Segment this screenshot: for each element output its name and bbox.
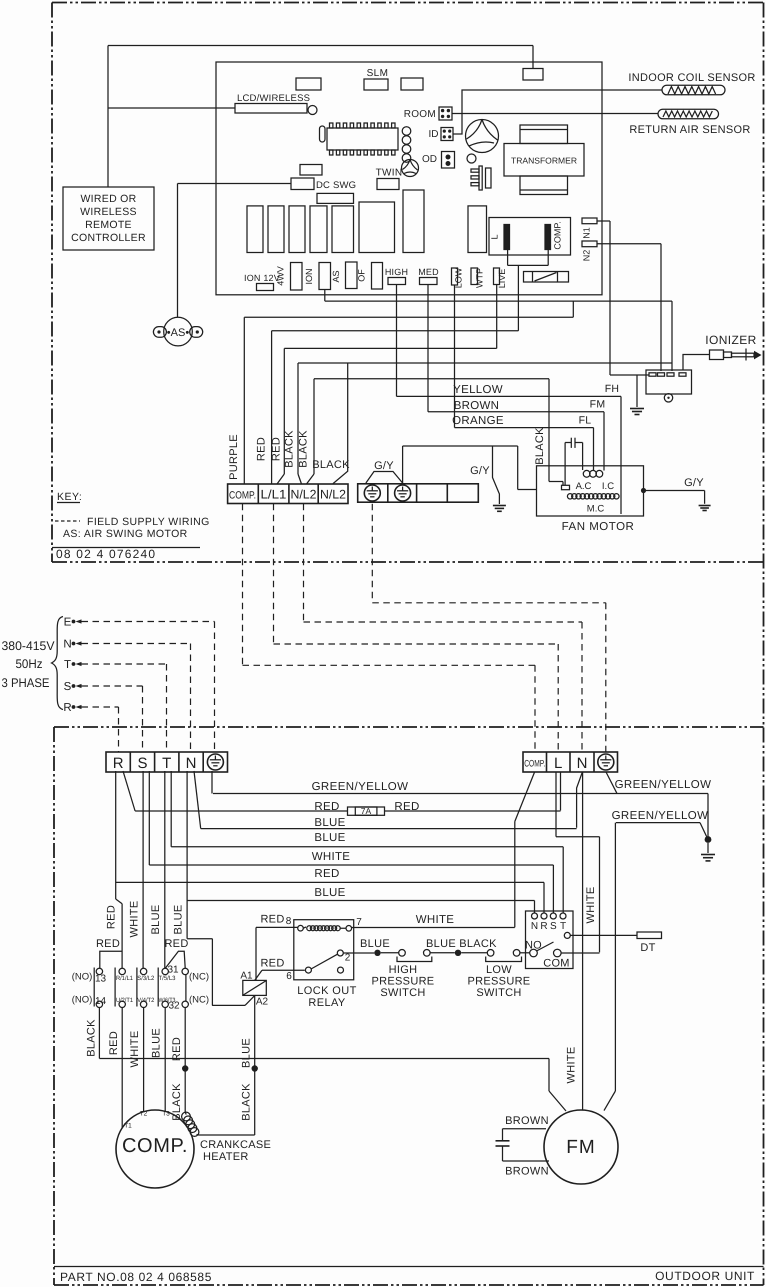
svg-text:OD: OD <box>422 154 437 165</box>
svg-text:LIVE: LIVE <box>497 269 507 289</box>
svg-text:TWIN: TWIN <box>376 168 403 179</box>
svg-text:T2: T2 <box>140 1111 148 1118</box>
svg-text:W/6/T3: W/6/T3 <box>159 997 176 1004</box>
svg-text:7: 7 <box>356 917 362 928</box>
svg-text:08 02 4 076240: 08 02 4 076240 <box>56 547 156 561</box>
svg-text:BLUE: BLUE <box>360 938 390 950</box>
svg-text:RED: RED <box>164 938 188 950</box>
svg-text:RED: RED <box>96 938 120 950</box>
svg-text:380-415V: 380-415V <box>2 639 56 653</box>
svg-text:RED: RED <box>314 868 339 880</box>
svg-text:13: 13 <box>95 974 107 985</box>
svg-text:WHITE: WHITE <box>129 1031 141 1068</box>
svg-text:AS: AS <box>331 270 341 282</box>
svg-text:T: T <box>560 921 566 932</box>
svg-text:ROOM: ROOM <box>404 109 436 120</box>
svg-text:WIRELESS: WIRELESS <box>80 206 137 218</box>
svg-text:N2: N2 <box>582 250 592 262</box>
svg-text:RED: RED <box>106 905 118 929</box>
svg-text:KEY:: KEY: <box>57 491 82 503</box>
svg-text:BLACK: BLACK <box>284 430 296 468</box>
svg-text:•AS•: •AS• <box>167 327 190 339</box>
svg-text:PURPLE: PURPLE <box>228 434 240 480</box>
svg-text:S: S <box>64 681 72 693</box>
svg-text:OF: OF <box>357 269 367 282</box>
svg-text:2: 2 <box>345 953 351 964</box>
svg-text:6: 6 <box>286 971 292 982</box>
svg-text:U/2/T1: U/2/T1 <box>116 997 134 1004</box>
svg-text:A2: A2 <box>256 997 269 1008</box>
svg-text:RELAY: RELAY <box>308 997 346 1009</box>
svg-text:L: L <box>490 234 500 239</box>
svg-text:N: N <box>63 639 71 651</box>
svg-text:ID: ID <box>429 129 439 140</box>
svg-text:V/4/T2: V/4/T2 <box>137 997 155 1004</box>
svg-text:SWITCH: SWITCH <box>380 987 425 999</box>
svg-text:S: S <box>137 755 147 772</box>
svg-text:HEATER: HEATER <box>203 1151 249 1163</box>
svg-text:RED: RED <box>314 801 339 813</box>
svg-text:M.C: M.C <box>587 504 605 515</box>
svg-text:8: 8 <box>286 916 292 927</box>
svg-text:R/1/L1: R/1/L1 <box>116 975 134 982</box>
svg-text:3 PHASE: 3 PHASE <box>2 676 50 690</box>
svg-text:GREEN/YELLOW: GREEN/YELLOW <box>312 781 409 793</box>
svg-text:N: N <box>186 755 197 772</box>
svg-text:FIELD SUPPLY WIRING: FIELD SUPPLY WIRING <box>87 516 210 528</box>
svg-text:BLUE: BLUE <box>314 832 345 844</box>
svg-text:WHITE: WHITE <box>312 851 351 863</box>
svg-text:RETURN AIR SENSOR: RETURN AIR SENSOR <box>629 124 750 136</box>
svg-text:PRESSURE: PRESSURE <box>372 976 435 988</box>
svg-text:(NC): (NC) <box>189 972 209 983</box>
svg-text:WIRED OR: WIRED OR <box>80 193 136 205</box>
svg-text:14: 14 <box>95 996 107 1007</box>
svg-text:L: L <box>554 755 562 772</box>
svg-text:LOCK OUT: LOCK OUT <box>297 985 356 997</box>
svg-text:OUTDOOR UNIT: OUTDOOR UNIT <box>655 1269 755 1283</box>
svg-text:L/L1: L/L1 <box>261 488 287 502</box>
svg-text:SLM: SLM <box>367 68 389 79</box>
svg-text:G/Y: G/Y <box>374 460 394 472</box>
svg-text:GREEN/YELLOW: GREEN/YELLOW <box>615 779 712 791</box>
svg-text:FM: FM <box>566 1137 595 1158</box>
svg-text:S: S <box>550 921 557 932</box>
svg-text:BLACK: BLACK <box>312 459 350 471</box>
svg-text:FH: FH <box>605 383 620 395</box>
svg-text:A.C: A.C <box>576 481 592 492</box>
svg-text:PRESSURE: PRESSURE <box>468 976 531 988</box>
svg-text:(NO): (NO) <box>72 995 93 1006</box>
svg-text:WHITE: WHITE <box>585 887 597 924</box>
svg-text:LOW: LOW <box>486 964 512 976</box>
svg-text:HIGH: HIGH <box>389 964 418 976</box>
svg-text:BLUE: BLUE <box>314 817 345 829</box>
svg-text:FM: FM <box>590 399 606 411</box>
svg-text:ION: ION <box>304 268 314 284</box>
svg-text:T3: T3 <box>162 1111 170 1118</box>
svg-text:BLACK: BLACK <box>298 430 310 468</box>
svg-text:4WV: 4WV <box>276 266 286 286</box>
svg-text:BROWN: BROWN <box>505 1115 549 1127</box>
svg-text:50Hz: 50Hz <box>16 657 43 671</box>
svg-text:COM: COM <box>543 958 570 970</box>
svg-text:FAN MOTOR: FAN MOTOR <box>562 521 635 533</box>
svg-text:T/5/L3: T/5/L3 <box>159 975 177 982</box>
svg-text:RED: RED <box>260 958 284 970</box>
svg-text:BROWN: BROWN <box>505 1166 549 1178</box>
svg-text:BROWN: BROWN <box>454 400 500 412</box>
svg-text:BLUE: BLUE <box>172 905 184 935</box>
svg-text:INDOOR COIL SENSOR: INDOOR COIL SENSOR <box>628 72 755 84</box>
svg-text:(NO): (NO) <box>72 972 93 983</box>
svg-text:GREEN/YELLOW: GREEN/YELLOW <box>612 810 709 822</box>
svg-text:RED: RED <box>394 801 419 813</box>
svg-text:COMP.: COMP. <box>229 490 256 502</box>
svg-text:FL: FL <box>579 415 592 427</box>
svg-text:AS: AIR SWING MOTOR: AS: AIR SWING MOTOR <box>63 528 188 540</box>
svg-text:REMOTE: REMOTE <box>85 219 132 231</box>
svg-text:COMP.: COMP. <box>524 759 545 770</box>
svg-text:R: R <box>113 755 124 772</box>
svg-text:COMP.: COMP. <box>122 1135 188 1157</box>
svg-text:(NC): (NC) <box>189 995 209 1006</box>
svg-text:N: N <box>531 921 538 932</box>
svg-text:DC SWG: DC SWG <box>316 180 356 191</box>
svg-text:BLUE: BLUE <box>314 887 345 899</box>
svg-text:T: T <box>64 659 71 671</box>
svg-text:N/L2: N/L2 <box>291 488 317 502</box>
svg-text:N: N <box>577 755 588 772</box>
svg-text:S/3/L2: S/3/L2 <box>137 975 155 982</box>
svg-text:I.C: I.C <box>602 481 614 492</box>
svg-text:RED: RED <box>271 437 283 461</box>
svg-text:G/Y: G/Y <box>470 465 490 477</box>
svg-text:LCD/WIRELESS: LCD/WIRELESS <box>237 93 310 104</box>
svg-text:BLACK: BLACK <box>459 938 497 950</box>
svg-text:R: R <box>63 702 71 714</box>
svg-text:T: T <box>162 755 171 772</box>
svg-text:BLUE: BLUE <box>241 1038 253 1068</box>
svg-text:CRANKCASE: CRANKCASE <box>200 1139 271 1151</box>
svg-text:BLACK: BLACK <box>86 1019 98 1057</box>
svg-text:RED: RED <box>171 1037 183 1061</box>
svg-text:IONIZER: IONIZER <box>705 333 756 347</box>
svg-text:T1: T1 <box>124 1123 132 1130</box>
svg-text:BLACK: BLACK <box>534 427 546 465</box>
svg-text:RED: RED <box>256 437 268 461</box>
svg-text:ORANGE: ORANGE <box>452 415 504 427</box>
svg-text:CONTROLLER: CONTROLLER <box>71 232 146 244</box>
svg-text:COMP.: COMP. <box>553 221 563 249</box>
svg-text:PART NO.08 02 4 068585: PART NO.08 02 4 068585 <box>60 1270 212 1284</box>
svg-text:E: E <box>64 617 72 629</box>
svg-text:N/L2: N/L2 <box>320 488 346 502</box>
svg-text:N1: N1 <box>582 227 592 239</box>
svg-text:G/Y: G/Y <box>684 477 704 489</box>
svg-text:BLUE: BLUE <box>426 938 456 950</box>
svg-text:WHITE: WHITE <box>416 914 455 926</box>
svg-text:BLACK: BLACK <box>241 1083 253 1121</box>
svg-text:R: R <box>540 921 547 932</box>
svg-text:SWITCH: SWITCH <box>476 987 521 999</box>
svg-text:WHITE: WHITE <box>566 1047 578 1084</box>
svg-text:RED: RED <box>260 914 284 926</box>
svg-text:TRANSFORMER: TRANSFORMER <box>511 156 577 166</box>
svg-text:A1: A1 <box>240 971 253 982</box>
svg-text:BLUE: BLUE <box>150 905 162 935</box>
svg-text:BLUE: BLUE <box>151 1028 163 1058</box>
svg-text:MED: MED <box>418 267 439 277</box>
svg-text:DT: DT <box>640 942 655 954</box>
svg-text:HIGH: HIGH <box>385 267 408 277</box>
svg-text:WHITE: WHITE <box>129 901 141 938</box>
svg-text:RED: RED <box>108 1031 120 1055</box>
svg-text:YELLOW: YELLOW <box>453 384 503 396</box>
svg-text:7A: 7A <box>361 806 372 816</box>
